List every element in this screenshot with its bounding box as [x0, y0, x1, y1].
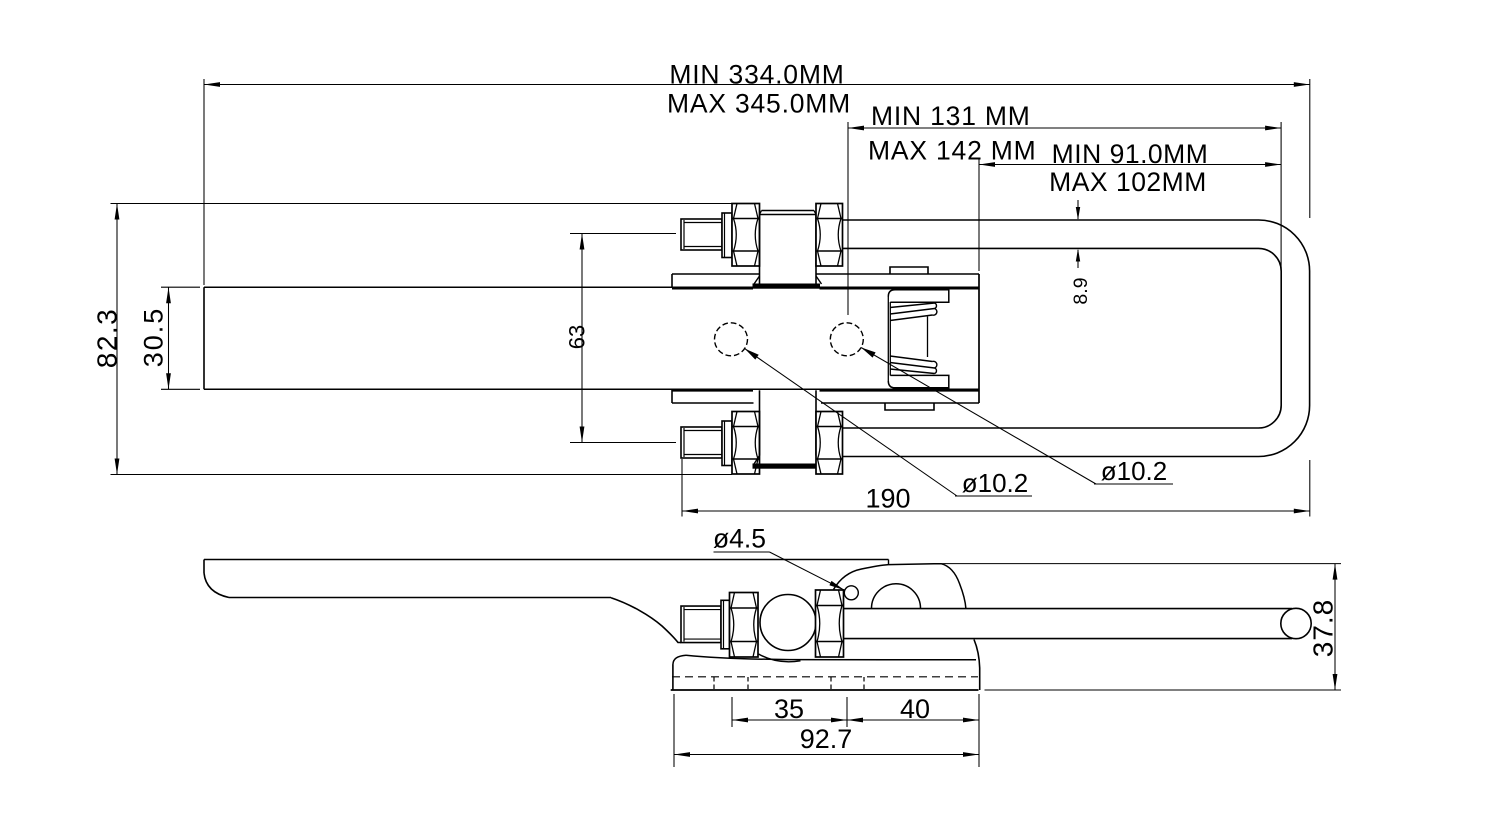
side washer [721, 600, 730, 649]
dim 30.5 [161, 286, 200, 288]
leader dia 10.2 (hole 1) [745, 349, 957, 496]
dim 35 [731, 697, 733, 727]
boss saddle arc [759, 654, 801, 662]
latch body top plate [672, 273, 760, 275]
svg-text:30.5: 30.5 [139, 307, 169, 368]
U-bolt upper leg [843, 219, 1259, 221]
handle strip plate [204, 286, 979, 288]
svg-text:35: 35 [774, 694, 804, 724]
upper nut 1 [732, 204, 760, 267]
side nut left [730, 593, 759, 658]
dim MIN 91.0 / MAX 102 [978, 158, 980, 271]
spring lower coil [890, 369, 935, 374]
dim 8.9 [1077, 200, 1079, 219]
upper stud thread [681, 219, 722, 250]
pivot ball [760, 595, 816, 651]
lower stud thread [681, 427, 722, 458]
dim 63 [570, 233, 676, 235]
base hole hidden edges [713, 677, 715, 690]
U-bolt loop inner [1259, 248, 1282, 428]
base hidden line [672, 676, 978, 678]
latch body right edge [978, 274, 980, 403]
svg-text:MIN 91.0MM: MIN 91.0MM [1052, 139, 1209, 169]
top tab [890, 267, 928, 274]
pawl top retainer bar [888, 290, 949, 303]
dim 40 [847, 719, 979, 721]
pawl lever (side) [834, 564, 966, 609]
hole 2 (dia 10.2) [830, 323, 863, 356]
hole 1 (dia 10.2) [715, 323, 748, 356]
lower swivel boss [759, 390, 761, 455]
keeper right edge (lower) [974, 640, 980, 691]
svg-text:37.8: 37.8 [1308, 599, 1339, 658]
upper swivel boss [759, 215, 761, 285]
svg-text:40: 40 [900, 694, 930, 724]
svg-text:ø10.2: ø10.2 [962, 468, 1029, 498]
svg-text:92.7: 92.7 [800, 724, 853, 754]
svg-text:MAX 345.0MM: MAX 345.0MM [667, 89, 851, 119]
upper nut 2 [816, 204, 843, 267]
pawl hole dia 4.5 [844, 586, 858, 600]
dim MIN 334.0 / MAX 345.0 [203, 79, 205, 285]
dim 92.7 [673, 694, 675, 767]
lower nut 2 [816, 412, 843, 475]
lower stud washer [722, 421, 732, 466]
dim MIN 131 / MAX 142 [847, 122, 849, 315]
svg-text:63: 63 [565, 325, 590, 349]
svg-text:ø4.5: ø4.5 [713, 524, 766, 554]
upper boss base washer (dark band) [753, 284, 820, 288]
upper stud washer [722, 213, 732, 258]
pawl bottom retainer bar [888, 375, 949, 387]
side nut right [816, 590, 844, 657]
spring plunger edge [927, 317, 929, 358]
svg-text:ø10.2: ø10.2 [1101, 456, 1168, 486]
svg-text:MIN 131 MM: MIN 131 MM [871, 101, 1031, 131]
base plate (side) [686, 655, 976, 660]
lower nut 1 [732, 412, 760, 475]
svg-text:MIN 334.0MM: MIN 334.0MM [669, 60, 844, 90]
pawl guide verticals [887, 296, 889, 382]
lower boss base washer (dark band) [753, 464, 820, 468]
svg-text:MAX 102MM: MAX 102MM [1049, 167, 1207, 197]
U-bolt rod (side) [844, 608, 1293, 610]
spring upper coil [890, 303, 935, 308]
latch body bottom plate [672, 389, 753, 392]
leader dia 4.5 [714, 551, 770, 553]
dim 190 [681, 459, 683, 517]
U-bolt loop outer [1259, 220, 1310, 457]
handle lever (side) [204, 559, 889, 561]
svg-text:82.3: 82.3 [92, 308, 123, 369]
svg-text:8.9: 8.9 [1070, 277, 1092, 304]
U-bolt bend (end circle) [1281, 608, 1311, 638]
svg-text:MAX 142 MM: MAX 142 MM [868, 136, 1037, 166]
dim 82.3 [111, 203, 733, 205]
bottom tab [885, 403, 934, 410]
finger arch on pawl [871, 584, 920, 609]
leader dia 10.2 (hole 2) [861, 348, 1096, 485]
side stud thread [681, 606, 721, 643]
svg-text:190: 190 [865, 484, 910, 514]
U-bolt lower leg [843, 427, 1259, 429]
dim 37.8 [941, 563, 1341, 565]
